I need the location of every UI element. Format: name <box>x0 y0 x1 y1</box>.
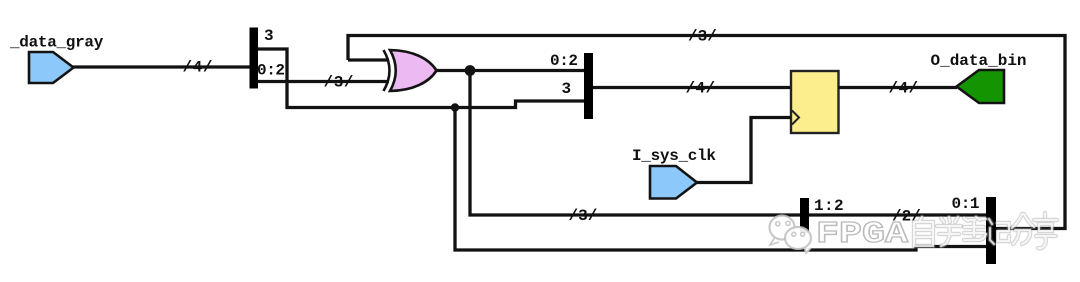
op XOR gate U1 extra input arc <box>384 50 390 91</box>
svg-text:O_data_bin: O_data_bin <box>931 52 1027 70</box>
svg-text:3: 3 <box>264 27 274 45</box>
bus ripper B3 <box>800 198 809 233</box>
svg-text:/3/: /3/ <box>688 28 717 46</box>
svg-text:1:2: 1:2 <box>814 197 844 215</box>
svg-text:3: 3 <box>562 80 572 98</box>
svg-text:/4/: /4/ <box>686 80 716 98</box>
wire B1 bit3 branch horizontal <box>258 49 584 108</box>
watermark group <box>770 213 1058 253</box>
op XOR gate U1 body <box>390 50 437 91</box>
junction on XOR output <box>465 65 476 76</box>
wire feedback top rail <box>348 36 1065 229</box>
wire feedback into XOR upper input <box>348 58 389 61</box>
wire B1 bits 0:2 to XOR lower input <box>258 80 389 83</box>
svg-text:/3/: /3/ <box>569 207 598 225</box>
svg-text:/4/: /4/ <box>183 59 214 77</box>
svg-text:0:2: 0:2 <box>257 62 285 80</box>
output port O_data_bin <box>957 70 1005 103</box>
watermark wechat big bubble <box>770 216 795 246</box>
bus joiner B2 <box>584 53 593 119</box>
junction on bit3 wire <box>451 103 459 111</box>
register FD1 <box>791 71 839 133</box>
register clock chevron <box>792 111 799 125</box>
wire input _data_gray to bus ripper B1 <box>73 65 250 68</box>
svg-text:0:2: 0:2 <box>550 52 578 70</box>
wire bit3 down to bottom rail <box>455 108 986 251</box>
wire XOR output down to lower /3/ rail <box>470 71 986 216</box>
wire I_sys_clk to register clock <box>697 118 791 183</box>
bus joiner B4 <box>986 197 996 264</box>
svg-text:FPGA: FPGA <box>816 217 908 252</box>
svg-text:_data_gray: _data_gray <box>9 34 104 52</box>
svg-text:I_sys_clk: I_sys_clk <box>632 147 716 165</box>
wire XOR output to joiner B2 <box>437 69 585 72</box>
svg-text:0:1: 0:1 <box>952 195 980 213</box>
svg-text:/4/: /4/ <box>889 80 919 98</box>
wire register Q output to O_data_bin <box>839 86 958 89</box>
svg-text:/3/: /3/ <box>324 74 355 92</box>
watermark glyphs FPGA zixue biji fenxiang <box>914 213 1057 248</box>
input port _data_gray <box>29 52 74 83</box>
watermark wechat small bubble <box>785 227 811 253</box>
wire B2 output to register D input <box>593 86 791 89</box>
input port I_sys_clk <box>650 166 697 199</box>
bus ripper B1 <box>250 28 259 89</box>
